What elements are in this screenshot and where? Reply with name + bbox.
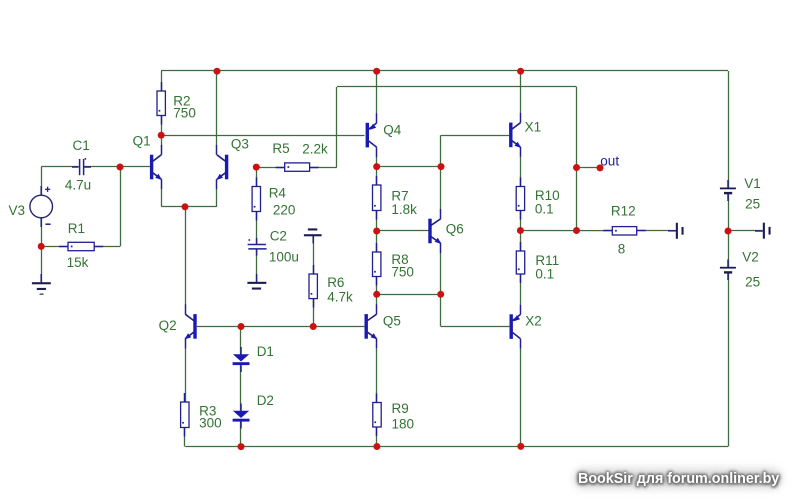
node R7/R8/Q6 base <box>373 228 380 235</box>
node rail/X1 collector <box>517 68 524 75</box>
wire <box>440 253 442 294</box>
wire <box>94 246 120 248</box>
wire <box>161 135 163 147</box>
wire <box>197 326 364 328</box>
svg-text:300: 300 <box>199 416 222 431</box>
transistor X1 (npn) <box>509 113 521 157</box>
resistor R2 (750) <box>157 82 165 125</box>
wire <box>41 166 78 168</box>
wire <box>728 273 730 447</box>
wire <box>376 211 378 232</box>
wire <box>313 299 315 327</box>
svg-text:220: 220 <box>273 202 296 217</box>
wire <box>376 231 378 252</box>
wire <box>440 167 442 209</box>
wire <box>728 71 730 188</box>
wire <box>310 167 337 169</box>
svg-text:Q6: Q6 <box>446 221 464 236</box>
wire <box>41 167 43 195</box>
ground (C2) <box>247 274 266 290</box>
wire <box>256 249 258 281</box>
svg-text:R4: R4 <box>269 186 287 201</box>
svg-text:750: 750 <box>391 265 414 280</box>
wire <box>440 135 442 166</box>
node X2/rail <box>517 443 524 450</box>
svg-text:100u: 100u <box>269 249 299 264</box>
wire <box>520 231 522 252</box>
node out column/R12 <box>573 227 580 234</box>
wire <box>256 167 284 169</box>
ground (R6 top, inverted) <box>304 228 322 243</box>
svg-text:Q3: Q3 <box>231 137 249 152</box>
wire <box>161 135 364 137</box>
svg-text:0.1: 0.1 <box>535 267 554 282</box>
node rail/Q3 collector <box>214 68 221 75</box>
transistor Q3 (npn) <box>216 145 228 189</box>
svg-text:Q5: Q5 <box>383 314 401 329</box>
wire <box>376 167 378 185</box>
wire <box>161 189 163 207</box>
svg-text:R1: R1 <box>68 221 85 236</box>
wire <box>377 166 441 168</box>
svg-text:V1: V1 <box>744 176 761 191</box>
svg-text:2.2k: 2.2k <box>302 142 328 157</box>
wire <box>41 246 68 248</box>
node Q2 base/D1 <box>238 323 245 330</box>
svg-text:8: 8 <box>618 241 626 256</box>
wire <box>441 326 509 328</box>
svg-text:V3: V3 <box>9 203 26 218</box>
node R9/rail <box>373 443 380 450</box>
node out terminal <box>597 164 604 171</box>
node Q4 collector/R7 <box>373 163 380 170</box>
svg-text:180: 180 <box>392 416 415 431</box>
svg-text:C1: C1 <box>73 138 90 153</box>
svg-text:R9: R9 <box>392 401 409 416</box>
capacitor C2 <box>248 238 267 256</box>
node V1/V2 midpoint <box>725 228 732 235</box>
ground (V3) <box>32 274 51 295</box>
wire <box>161 70 728 72</box>
wire <box>440 294 442 326</box>
wire <box>240 365 242 411</box>
resistor R4 (220) <box>252 178 260 221</box>
wire <box>376 277 378 295</box>
svg-text:Q4: Q4 <box>383 123 402 138</box>
wire <box>376 427 378 447</box>
wire <box>376 349 378 403</box>
wire <box>185 446 728 448</box>
svg-text:D1: D1 <box>257 344 274 359</box>
svg-text:Q2: Q2 <box>159 318 177 333</box>
transistor Q2 (npn) <box>185 304 197 348</box>
svg-text:C2: C2 <box>270 229 287 244</box>
resistor R9 (180) <box>373 394 381 437</box>
svg-text:X2: X2 <box>525 314 542 329</box>
capacitor C1 <box>72 158 91 175</box>
wire <box>216 189 218 207</box>
wire <box>577 167 601 169</box>
node D2/rail <box>238 443 245 450</box>
node R10/output <box>517 227 524 234</box>
resistor R8 (750) <box>373 243 381 286</box>
watermark band <box>574 468 782 489</box>
node diff tail <box>182 203 189 210</box>
svg-text:R6: R6 <box>327 275 344 290</box>
transistor Q1 (npn) <box>150 145 162 189</box>
transistor X2 (pnp) <box>510 305 521 349</box>
wire <box>520 349 522 447</box>
ground (V1/V2 mid, right-facing) <box>755 223 771 239</box>
wire <box>576 87 578 231</box>
ground (R12, right-facing) <box>668 223 684 239</box>
resistor R12 (8) <box>603 227 645 235</box>
wire <box>377 294 441 296</box>
svg-text:4.7k: 4.7k <box>327 289 353 304</box>
wire <box>185 207 187 305</box>
wire <box>520 230 612 232</box>
watermark text <box>578 471 779 487</box>
wire <box>161 71 163 91</box>
wire <box>161 116 163 136</box>
node out <box>573 164 580 171</box>
diode D1 <box>233 347 250 372</box>
wire <box>637 230 676 232</box>
resistor R6 (4.7k) <box>309 265 317 308</box>
svg-text:X1: X1 <box>525 120 542 135</box>
wire <box>376 157 378 167</box>
wire <box>184 428 186 447</box>
battery V2 <box>720 260 736 281</box>
resistor R1 (15k) <box>59 242 103 250</box>
svg-text:25: 25 <box>745 275 760 290</box>
wire <box>520 157 522 187</box>
battery V1 <box>720 180 736 201</box>
svg-text:out: out <box>600 154 619 169</box>
wire <box>161 206 217 208</box>
svg-text:0.1: 0.1 <box>535 202 554 217</box>
svg-text:D2: D2 <box>257 393 274 408</box>
svg-text:R5: R5 <box>272 141 289 156</box>
wire <box>377 230 429 232</box>
diode D2 <box>233 404 250 429</box>
wire <box>728 194 730 267</box>
node Q3 base/R4/R5 <box>253 164 260 171</box>
transistor Q4 (pnp) <box>366 113 377 157</box>
node V3 minus <box>38 243 45 250</box>
svg-text:15k: 15k <box>67 255 89 270</box>
wire <box>240 326 242 354</box>
wire <box>520 274 522 305</box>
wire <box>256 212 258 245</box>
svg-text:Q1: Q1 <box>133 134 151 149</box>
wire <box>337 86 577 88</box>
svg-text:750: 750 <box>173 105 196 120</box>
node R2/Q1 collector <box>158 132 165 139</box>
node R8/Q5 collector <box>373 291 380 298</box>
node C1/R1/Q1 base <box>117 164 124 171</box>
wire <box>520 71 522 113</box>
node rail/Q4 emitter <box>373 68 380 75</box>
wire <box>520 211 522 231</box>
wire <box>120 167 122 246</box>
node Q6 collector/X1 base <box>438 163 445 170</box>
wire <box>441 135 509 137</box>
wire <box>216 71 218 146</box>
svg-text:V2: V2 <box>742 250 759 265</box>
node Q6 emitter/X2 base <box>437 291 444 298</box>
svg-text:25: 25 <box>745 197 760 212</box>
voltage source V3 <box>30 186 53 227</box>
wire <box>41 218 43 283</box>
resistor R5 (2.2k) <box>276 163 319 171</box>
wire <box>376 71 378 113</box>
svg-text:1.8k: 1.8k <box>391 202 417 217</box>
transistor Q6 (npn) <box>428 209 441 253</box>
resistor R7 (1.8k) <box>373 176 381 220</box>
resistor R3 (300) <box>181 393 189 437</box>
wire <box>84 166 150 168</box>
wire <box>256 167 258 186</box>
wire <box>313 236 315 274</box>
transistor Q5 (npn) <box>365 304 378 348</box>
svg-text:4.7u: 4.7u <box>65 178 91 193</box>
wire <box>376 294 378 304</box>
wire <box>240 421 242 446</box>
wire <box>728 230 762 232</box>
wire <box>185 348 187 402</box>
svg-text:R12: R12 <box>611 204 636 219</box>
wire <box>336 87 338 167</box>
resistor R11 (0.1) <box>516 242 524 283</box>
node R6/bias <box>310 323 317 330</box>
resistor R10 (0.1) <box>516 178 524 220</box>
